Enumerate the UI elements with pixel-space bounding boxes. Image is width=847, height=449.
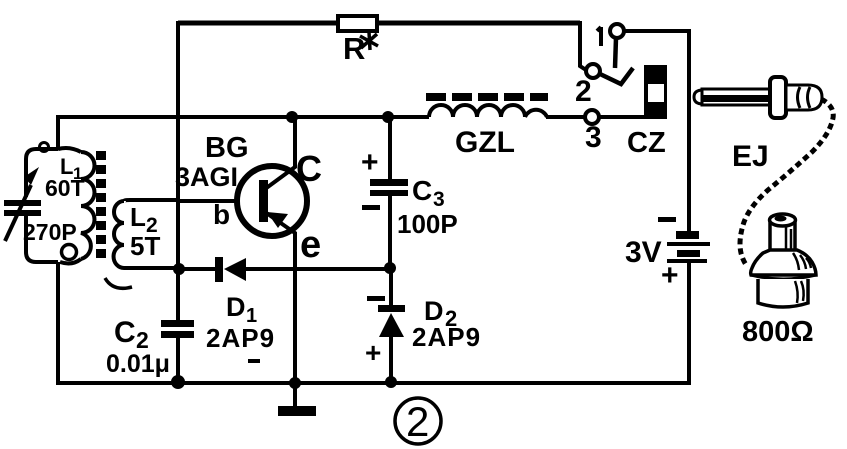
- svg-text:2: 2: [575, 75, 592, 108]
- wire C2 branch: [176, 269, 180, 383]
- label minus (D2): [367, 296, 385, 301]
- svg-text:3AGI: 3AGI: [175, 162, 238, 192]
- svg-text:3V: 3V: [625, 236, 662, 269]
- capacitor C3: [370, 179, 408, 196]
- wire terminal3 to jack CZ: [599, 115, 646, 119]
- wire C3 branch: [388, 117, 392, 269]
- switch terminal 2: [586, 64, 600, 78]
- diode D1: [215, 257, 246, 282]
- label b: [213, 199, 230, 230]
- transistor base bar: [259, 180, 268, 222]
- battery 3V: [667, 231, 710, 263]
- ground: [278, 383, 316, 416]
- svg-text:C: C: [296, 148, 322, 189]
- wire top rail left segment: [178, 21, 338, 26]
- cord (plug to earphone): [740, 99, 833, 266]
- transistor collector lead: [265, 117, 295, 189]
- svg-text:5T: 5T: [130, 231, 160, 261]
- label C3: [412, 175, 445, 211]
- node rail-C3 junction: [382, 111, 394, 123]
- svg-text:2AP9: 2AP9: [206, 323, 275, 353]
- capacitor C2: [161, 320, 194, 338]
- svg-text:e: e: [300, 224, 321, 266]
- wire top rail right segment: [376, 21, 580, 26]
- svg-text:EJ: EJ: [732, 140, 769, 173]
- label 3AG1: [175, 162, 238, 192]
- svg-text:C: C: [412, 175, 432, 206]
- label L2: [130, 202, 158, 237]
- coil L2 (5T): [105, 200, 178, 288]
- svg-text:3: 3: [433, 188, 445, 211]
- label 800ohm: [742, 316, 814, 348]
- label e: [300, 224, 321, 266]
- svg-text:3: 3: [585, 121, 602, 154]
- wire left vertical top (tank to rail): [56, 115, 60, 150]
- coil L1 (60T): [40, 143, 95, 264]
- switch terminal 1: [610, 24, 624, 38]
- svg-text:100P: 100P: [397, 209, 458, 239]
- wire switch drop from top rail: [580, 21, 586, 70]
- transistor BG circle: [237, 166, 307, 236]
- label C2: [114, 316, 149, 353]
- label L1: [60, 154, 82, 183]
- resistor R*: [338, 16, 378, 66]
- svg-text:60T: 60T: [45, 175, 85, 201]
- LC tank loop (L1 + variable capacitor): [26, 149, 58, 262]
- wire bottom rail: [56, 381, 689, 385]
- svg-text:800Ω: 800Ω: [742, 316, 814, 348]
- node D2 bottom junction: [385, 376, 397, 388]
- inductor GZL: [429, 105, 547, 117]
- label 3V: [625, 236, 662, 269]
- transistor emitter lead with arrow: [265, 212, 295, 383]
- wire right rail upper: [687, 29, 691, 233]
- svg-text:2AP9: 2AP9: [412, 322, 481, 352]
- label 5T: [130, 231, 160, 261]
- label C: [296, 148, 322, 189]
- label minus (C3): [362, 205, 380, 210]
- jack CZ body: [644, 65, 667, 119]
- label plus (C3): [361, 146, 379, 179]
- wire terminal1 to right rail: [624, 29, 689, 33]
- label 60T: [45, 175, 85, 201]
- svg-text:GZL: GZL: [455, 126, 515, 159]
- svg-text:+: +: [661, 259, 679, 292]
- label D1: [226, 292, 257, 327]
- label EJ: [732, 140, 769, 173]
- label plus (battery): [661, 259, 679, 292]
- svg-text:D: D: [226, 292, 246, 322]
- label minus (D1): [248, 359, 260, 363]
- svg-text:+: +: [361, 146, 379, 179]
- label 2AP9 (D2): [412, 322, 481, 352]
- switch terminal 3: [585, 110, 599, 124]
- earphone 800ohm: [751, 214, 816, 307]
- svg-text:C: C: [114, 316, 136, 349]
- svg-text:+: +: [365, 337, 381, 368]
- svg-text:2: 2: [406, 398, 429, 445]
- label 3: [585, 121, 602, 154]
- label GZL: [455, 126, 515, 159]
- node D2 top junction: [384, 262, 396, 274]
- variable capacitor arrow: [5, 167, 39, 241]
- plug EJ: [694, 77, 822, 118]
- label 100P: [397, 209, 458, 239]
- node C2 bottom junction: [171, 375, 185, 389]
- svg-text:CZ: CZ: [627, 127, 666, 159]
- label 1: [597, 27, 601, 46]
- svg-text:b: b: [213, 199, 230, 230]
- label 270P: [23, 219, 77, 245]
- wire base lead: [178, 199, 240, 203]
- label 2: [575, 75, 592, 108]
- figure number circled 2: [395, 398, 441, 445]
- label CZ: [627, 127, 666, 159]
- wire main rail y=117: [58, 115, 429, 119]
- svg-text:L: L: [130, 202, 146, 232]
- wire left vertical bottom (tank to ground rail): [56, 262, 60, 385]
- label BG: [205, 132, 249, 164]
- variable capacitor 270P plates: [4, 200, 41, 216]
- label D2: [424, 296, 457, 331]
- label minus (battery): [658, 217, 676, 222]
- label 0.01u: [106, 350, 170, 378]
- wire right rail lower: [687, 262, 691, 385]
- wire rail GZL to terminal3: [546, 115, 586, 119]
- diode D2: [378, 305, 405, 337]
- svg-text:BG: BG: [205, 132, 249, 164]
- wire vertical feedback x=178: [176, 21, 180, 202]
- label plus (D2): [365, 337, 381, 368]
- node emitter-ground junction: [289, 377, 301, 389]
- node L2 bottom junction: [173, 263, 185, 275]
- svg-text:270P: 270P: [23, 219, 77, 245]
- ferrite core (dashed bar): [96, 151, 106, 258]
- switch pole lever: [600, 38, 633, 84]
- ferrite core (GZL dashed bar): [426, 93, 548, 101]
- svg-text:0.01μ: 0.01μ: [106, 350, 170, 378]
- wire emitter row y=269: [180, 267, 390, 271]
- node rail-collector junction: [286, 111, 298, 123]
- wire D2 branch: [389, 268, 393, 383]
- label 2AP9 (D1): [206, 323, 275, 353]
